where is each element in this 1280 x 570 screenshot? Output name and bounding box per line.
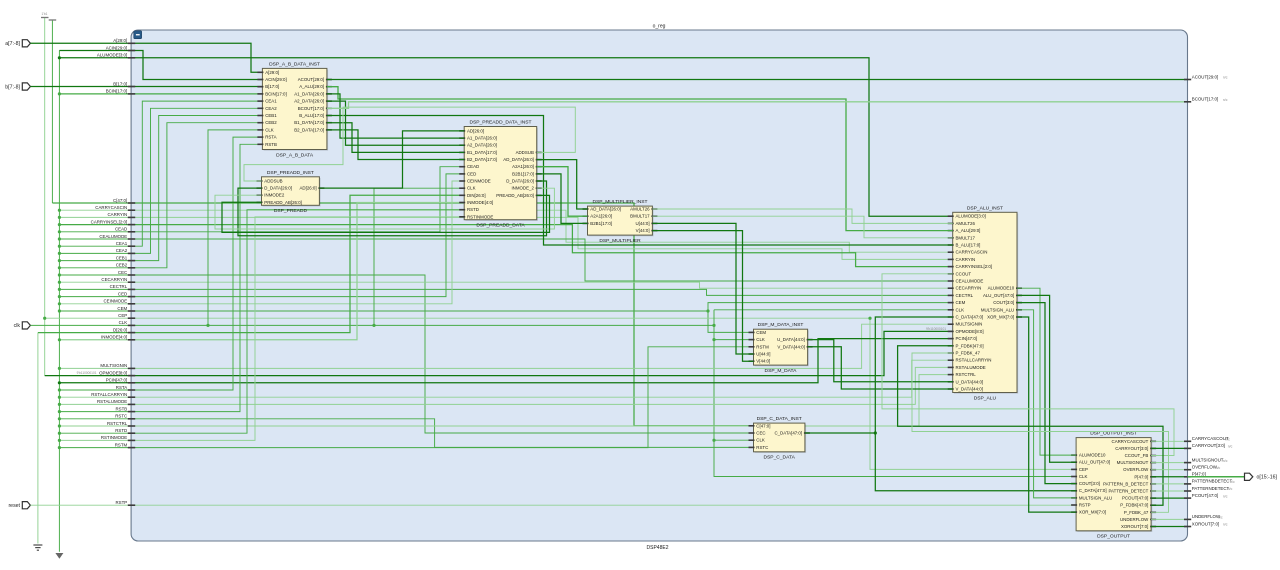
svg-text:BCIN[17:0]: BCIN[17:0] xyxy=(106,89,127,94)
svg-text:CEINMODE: CEINMODE xyxy=(467,179,491,184)
wire RSTA xyxy=(59,137,262,390)
svg-text:INMODE[4:0]: INMODE[4:0] xyxy=(101,335,127,340)
svg-text:B2_DATA[17:0]: B2_DATA[17:0] xyxy=(467,157,497,162)
svg-text:CECARRYIN: CECARRYIN xyxy=(956,286,982,291)
svg-text:A2A1[26:0]: A2A1[26:0] xyxy=(590,214,612,219)
svg-text:n/c: n/c xyxy=(1228,445,1233,449)
svg-text:CEC: CEC xyxy=(756,431,765,436)
ground rail GND (bus D) xyxy=(37,333,39,544)
wire CEP xyxy=(45,318,1076,469)
svg-text:CEB2: CEB2 xyxy=(265,120,277,125)
svg-text:C_DATA[47:0]: C_DATA[47:0] xyxy=(1079,488,1107,493)
node RSTCTRL-junc xyxy=(58,424,61,427)
svg-text:A_ALU[29:0]: A_ALU[29:0] xyxy=(956,228,981,233)
svg-text:AD_DATA[26:0]: AD_DATA[26:0] xyxy=(503,157,534,162)
node MULTSIGNIN-junc xyxy=(58,367,61,370)
svg-text:b[7:-8]: b[7:-8] xyxy=(5,84,20,90)
svg-text:PATTERNBDETECT: PATTERNBDETECT xyxy=(1192,479,1233,484)
svg-text:RSTINMODE: RSTINMODE xyxy=(101,435,127,440)
node CEC-junc xyxy=(58,273,61,276)
wire CEM branch to DSP_M_DATA xyxy=(708,311,754,332)
svg-text:MULTSIGN_ALU: MULTSIGN_ALU xyxy=(981,307,1014,312)
wire output PATTERNBDETECT xyxy=(1151,483,1187,485)
wire output CARRYOUT[3:0] xyxy=(1151,447,1187,449)
svg-text:DSP_OUTPUT: DSP_OUTPUT xyxy=(1097,534,1130,540)
wire RSTINMODE xyxy=(59,217,464,441)
svg-text:DSP_MULTIPLIER_INST: DSP_MULTIPLIER_INST xyxy=(592,199,647,205)
input port clk xyxy=(22,322,30,329)
svg-text:PCIN[47:0]: PCIN[47:0] xyxy=(106,378,127,383)
svg-text:CLK: CLK xyxy=(265,127,274,132)
svg-text:P_FDBK[47:0]: P_FDBK[47:0] xyxy=(956,343,984,348)
wire CEAD xyxy=(59,167,464,232)
svg-text:UNDERFLOW: UNDERFLOW xyxy=(1192,514,1221,519)
svg-text:RSTALUMODE: RSTALUMODE xyxy=(97,399,127,404)
node CECARRYIN-junc xyxy=(58,281,61,284)
node CEM-branch xyxy=(706,309,709,312)
svg-text:PATTERNDETECT: PATTERNDETECT xyxy=(1192,486,1230,491)
node CARRYCASCIN-junc xyxy=(58,209,61,212)
node CEP-corner xyxy=(868,317,871,320)
block DSP_A_B_DATA_INST (DSP_A_B_DATA) xyxy=(257,61,332,158)
wire RSTP xyxy=(30,504,1076,506)
svg-text:U[44:0]: U[44:0] xyxy=(635,221,649,226)
node RSTINMODE-junc xyxy=(58,439,61,442)
wire AD_DATA[26:0] xyxy=(537,160,588,209)
wire ADDSUB xyxy=(244,107,575,181)
wire output OVERFLOW xyxy=(1151,469,1187,471)
svg-text:CED: CED xyxy=(467,171,476,176)
svg-text:MULTSIGNIN: MULTSIGNIN xyxy=(956,322,983,327)
svg-text:PCOUT[47:0]: PCOUT[47:0] xyxy=(1122,496,1148,501)
svg-text:CEM: CEM xyxy=(956,300,966,305)
node RSTB-junc xyxy=(58,410,61,413)
svg-text:DSP_A_B_DATA_INST: DSP_A_B_DATA_INST xyxy=(269,61,320,67)
wire B1_DATA[17:0] xyxy=(327,123,464,153)
svg-text:A[29:0]: A[29:0] xyxy=(265,70,279,75)
block DSP_PREADD_INST (DSP_PREADD) xyxy=(257,170,325,214)
svg-text:RSTB: RSTB xyxy=(265,142,277,147)
svg-text:P[47:0]: P[47:0] xyxy=(1192,472,1206,477)
svg-text:CEA2: CEA2 xyxy=(265,106,277,111)
svg-text:RSTALLCARRYIN: RSTALLCARRYIN xyxy=(91,392,127,397)
wire COUT[3:0] xyxy=(1017,303,1076,484)
power rail const (CEP/OPMODE) xyxy=(44,18,46,376)
svg-text:CARRYOUT[3:0]: CARRYOUT[3:0] xyxy=(1115,446,1148,451)
node RSTALLCARRYIN-junc xyxy=(58,396,61,399)
svg-text:OVERFLOW: OVERFLOW xyxy=(1192,465,1218,470)
svg-text:XOROUT[7:0]: XOROUT[7:0] xyxy=(1121,524,1148,529)
svg-text:CEA2: CEA2 xyxy=(116,248,128,253)
node BCIN[17:0]-junc xyxy=(58,92,61,95)
wire P_FDBK_47 loop xyxy=(912,353,1169,512)
node CECTRL-junc xyxy=(58,288,61,291)
svg-text:RSTA: RSTA xyxy=(265,135,276,140)
block DSP_OUTPUT_INST (DSP_OUTPUT) xyxy=(1071,431,1156,540)
wire CEALUMODE xyxy=(59,239,952,281)
svg-text:CEB1: CEB1 xyxy=(116,255,128,260)
ground symbol (arrow) xyxy=(55,553,63,559)
svg-text:DSP_A_B_DATA: DSP_A_B_DATA xyxy=(276,152,314,158)
svg-text:RSTP: RSTP xyxy=(1079,503,1091,508)
svg-text:A2_DATA[26:0]: A2_DATA[26:0] xyxy=(467,143,497,148)
svg-text:A1_DATA[26:0]: A1_DATA[26:0] xyxy=(467,136,497,141)
wire output PATTERNDETECT xyxy=(1151,490,1187,492)
svg-text:OPMODE[8:0]: OPMODE[8:0] xyxy=(956,329,984,334)
wire CEINMODE xyxy=(59,181,464,304)
wire B[17:0] xyxy=(30,86,262,88)
svg-text:INMODE_2: INMODE_2 xyxy=(511,186,534,191)
wire CLK trunk down xyxy=(714,310,1076,477)
input port reset xyxy=(22,502,30,509)
svg-text:INMODE2: INMODE2 xyxy=(264,193,285,198)
svg-text:B1_DATA[17:0]: B1_DATA[17:0] xyxy=(467,150,497,155)
svg-text:MULTSIGNIN: MULTSIGNIN xyxy=(100,363,127,368)
block DSP_MULTIPLIER_INST (DSP_MULTIPLIER) xyxy=(583,199,658,244)
wire B_ALU[17:0] xyxy=(327,116,953,246)
svg-text:RSTM: RSTM xyxy=(115,442,128,447)
node RSTC-junc xyxy=(58,417,61,420)
svg-text:CLK: CLK xyxy=(119,320,128,325)
wire CLK branch to DSP_M_DATA xyxy=(714,339,754,341)
svg-text:CARRYINSEL[2:0]: CARRYINSEL[2:0] xyxy=(956,264,993,269)
svg-text:C_DATA[47:0]: C_DATA[47:0] xyxy=(956,315,984,320)
node CARRYINSEL[2:0]-junc xyxy=(58,223,61,226)
svg-text:DSP_PREADD_DATA_INST: DSP_PREADD_DATA_INST xyxy=(469,120,531,126)
ground rail GND (const0) xyxy=(58,51,60,552)
svg-text:CCOUT: CCOUT xyxy=(956,271,972,276)
svg-text:CEA1: CEA1 xyxy=(116,241,128,246)
svg-text:MULTSIGNOUT: MULTSIGNOUT xyxy=(1117,460,1149,465)
node CLK-j1 xyxy=(206,324,209,327)
svg-text:n/c: n/c xyxy=(1218,516,1223,520)
wire INMODE[4:0] xyxy=(59,203,464,340)
node RSTALUMODE-junc xyxy=(58,403,61,406)
module boundary o_reg / DSP48E2 xyxy=(131,30,1187,541)
node CEB1-junc xyxy=(58,259,61,262)
svg-text:CARRYCASCIN: CARRYCASCIN xyxy=(95,205,127,210)
svg-text:AMULT26: AMULT26 xyxy=(630,207,650,212)
svg-text:ACIN[29:0]: ACIN[29:0] xyxy=(265,77,286,82)
svg-text:OPMODE[8:0]: OPMODE[8:0] xyxy=(99,370,127,375)
svg-text:DIN[26:0]: DIN[26:0] xyxy=(467,193,486,198)
node CLK-j5 xyxy=(712,439,715,442)
wire XOR_MX[7:0] xyxy=(1017,317,1076,512)
svg-text:CECTRL: CECTRL xyxy=(110,284,128,289)
wire RSTCTRL xyxy=(59,375,952,426)
wire BCOUT[17:0] xyxy=(327,102,1188,109)
svg-text:RSTD: RSTD xyxy=(115,428,127,433)
svg-text:DSP_PREADD_INST: DSP_PREADD_INST xyxy=(267,170,314,176)
power rail const (C) xyxy=(51,20,53,203)
svg-text:DSP_C_DATA: DSP_C_DATA xyxy=(764,455,796,461)
svg-text:C[47:0]: C[47:0] xyxy=(756,423,770,428)
wire CEM xyxy=(59,303,952,311)
svg-text:XOROUT[7:0]: XOROUT[7:0] xyxy=(1192,521,1219,526)
svg-text:DSP48E2: DSP48E2 xyxy=(647,545,669,551)
svg-text:reset: reset xyxy=(8,503,20,509)
svg-text:V[44:0]: V[44:0] xyxy=(756,359,770,364)
svg-text:PCOUT[47:0]: PCOUT[47:0] xyxy=(1192,493,1218,498)
wire CEA2 xyxy=(59,108,262,253)
svg-text:CEA1: CEA1 xyxy=(265,99,277,104)
svg-text:CARRYIN: CARRYIN xyxy=(956,257,976,262)
svg-text:9'b110000101: 9'b110000101 xyxy=(77,371,97,375)
svg-text:P_FDBK_47: P_FDBK_47 xyxy=(1124,510,1149,515)
svg-text:D_DATA[26:0]: D_DATA[26:0] xyxy=(506,179,534,184)
svg-text:A1_DATA[26:0]: A1_DATA[26:0] xyxy=(294,91,324,96)
svg-text:V[44:0]: V[44:0] xyxy=(636,228,650,233)
wire PREADD_AB[26:0] xyxy=(222,195,550,232)
node ALUMODE[3:0]-junc xyxy=(58,56,61,59)
svg-text:BMULT17: BMULT17 xyxy=(630,214,650,219)
wire ALU_OUT[47:0] xyxy=(1017,295,1076,462)
wire CEA1 xyxy=(59,101,262,246)
svg-text:ALUMODE[3:0]: ALUMODE[3:0] xyxy=(97,53,127,58)
wire output CARRYCASCOUT xyxy=(1151,440,1187,442)
svg-text:n/c: n/c xyxy=(1223,459,1228,463)
wire P_FDBK[47:0] loop xyxy=(898,346,1163,505)
svg-text:RSTINMODE: RSTINMODE xyxy=(467,214,493,219)
block DSP_PREADD_DATA_INST (DSP_PREADD_DATA) xyxy=(459,120,542,229)
svg-text:DSP_ALU: DSP_ALU xyxy=(974,395,997,401)
node CEINMODE-junc xyxy=(58,302,61,305)
svg-text:ALU_OUT[47:0]: ALU_OUT[47:0] xyxy=(1079,460,1110,465)
wire OPMODE[8:0] xyxy=(45,331,953,375)
wire RSTM xyxy=(59,347,753,448)
svg-text:A2_DATA[26:0]: A2_DATA[26:0] xyxy=(294,99,324,104)
node CEALUMODE-junc xyxy=(58,237,61,240)
wire CEB2 xyxy=(59,123,262,268)
block DSP_M_DATA_INST (DSP_M_DATA) xyxy=(749,322,813,374)
svg-text:n/c: n/c xyxy=(1223,494,1228,498)
svg-text:C_DATA[47:0]: C_DATA[47:0] xyxy=(774,431,802,436)
svg-text:XOR_MX[7:0]: XOR_MX[7:0] xyxy=(1079,510,1106,515)
node CEA2-junc xyxy=(58,252,61,255)
node CED-junc xyxy=(58,295,61,298)
svg-text:B2B1[17:0]: B2B1[17:0] xyxy=(590,221,612,226)
wire output PCOUT[47:0] xyxy=(1151,497,1187,499)
svg-text:n/c: n/c xyxy=(1223,523,1228,527)
svg-text:A_ALU[29:0]: A_ALU[29:0] xyxy=(299,84,324,89)
wire A2_DATA[26:0] xyxy=(327,101,464,145)
svg-text:CEALUMODE: CEALUMODE xyxy=(956,279,984,284)
svg-text:ACIN[29:0]: ACIN[29:0] xyxy=(106,45,127,50)
edge output ACOUT xyxy=(1184,79,1191,81)
wire RSTB xyxy=(59,144,262,411)
wire MULTSIGN_ALU xyxy=(1017,310,1076,498)
svg-text:P_FDBK[47:0]: P_FDBK[47:0] xyxy=(1120,503,1148,508)
wire V_DATA[44:0] xyxy=(808,347,953,389)
svg-text:V_DATA[44:0]: V_DATA[44:0] xyxy=(777,344,804,349)
svg-text:BCOUT[17:0]: BCOUT[17:0] xyxy=(298,106,324,111)
svg-text:MULTSIGNOUT: MULTSIGNOUT xyxy=(1192,457,1224,462)
wire CARRYINSEL[2:0] xyxy=(59,225,952,267)
wire AD[26:0] xyxy=(319,131,464,188)
svg-text:CARRYCASCIN: CARRYCASCIN xyxy=(956,250,988,255)
wire ACOUT[29:0] xyxy=(327,79,1188,81)
svg-text:RSTM: RSTM xyxy=(756,344,769,349)
svg-text:B2B1[17:0]: B2B1[17:0] xyxy=(512,171,534,176)
svg-text:AD[26:0]: AD[26:0] xyxy=(467,128,484,133)
svg-text:CLK: CLK xyxy=(467,186,476,191)
node CEM-junc xyxy=(58,309,61,312)
wire CEC xyxy=(59,275,753,433)
svg-text:CEAD: CEAD xyxy=(467,164,479,169)
wire D_DATA[26:0] xyxy=(238,181,547,236)
svg-text:PATTERN_B_DETECT: PATTERN_B_DETECT xyxy=(1103,481,1149,486)
svg-text:ALUMODE[3:0]: ALUMODE[3:0] xyxy=(956,214,986,219)
svg-text:C[47:0]: C[47:0] xyxy=(113,198,127,203)
svg-text:P[47:0]: P[47:0] xyxy=(1134,474,1148,479)
node CLK-j2 xyxy=(372,324,375,327)
svg-text:COUT[3:0]: COUT[3:0] xyxy=(993,300,1014,305)
edge output BCOUT xyxy=(1184,101,1191,103)
wire BMULT17 xyxy=(652,216,952,238)
svg-text:o[15:-16]: o[15:-16] xyxy=(1257,475,1278,481)
svg-text:n/c: n/c xyxy=(1228,487,1233,491)
svg-text:DSP_MULTIPLIER: DSP_MULTIPLIER xyxy=(599,238,641,244)
node CEAD-junc xyxy=(58,230,61,233)
svg-text:B[17:0]: B[17:0] xyxy=(113,81,127,86)
svg-text:n/c: n/c xyxy=(1223,76,1228,80)
svg-text:B_ALU[17:0]: B_ALU[17:0] xyxy=(956,243,981,248)
svg-text:CARRYCASCOUT: CARRYCASCOUT xyxy=(1112,439,1149,444)
node CEA1-junc xyxy=(58,245,61,248)
svg-text:RSTC: RSTC xyxy=(115,414,127,419)
wire B2B1[17:0] xyxy=(537,174,588,224)
wire D[26:0] xyxy=(38,195,464,332)
svg-text:BCOUT[17:0]: BCOUT[17:0] xyxy=(1192,97,1218,102)
wire ALUMODE[3:0] xyxy=(59,58,952,216)
wire CCOUT_FB loop xyxy=(882,274,1174,456)
svg-text:AD[26:0]: AD[26:0] xyxy=(300,186,317,191)
svg-text:UNDERFLOW: UNDERFLOW xyxy=(1120,517,1149,522)
wire BCIN[17:0] xyxy=(59,93,262,95)
wire RSTC xyxy=(59,419,753,448)
svg-text:XOR_MX[7:0]: XOR_MX[7:0] xyxy=(987,315,1014,320)
wire RSTALLCARRYIN xyxy=(59,360,952,397)
wire CLK branch to DSP_C_DATA xyxy=(714,439,754,441)
block DSP_C_DATA_INST (DSP_C_DATA) xyxy=(749,416,810,461)
svg-text:DSP_M_DATA_INST: DSP_M_DATA_INST xyxy=(758,322,804,328)
svg-text:DSP_PREADD: DSP_PREADD xyxy=(274,208,308,214)
svg-text:B2_DATA[17:0]: B2_DATA[17:0] xyxy=(294,127,324,132)
svg-text:CARRYINSEL[2:0]: CARRYINSEL[2:0] xyxy=(91,219,128,224)
svg-text:RSTD: RSTD xyxy=(467,207,479,212)
svg-text:ADDSUB: ADDSUB xyxy=(516,150,534,155)
svg-text:RSTA: RSTA xyxy=(116,385,127,390)
wire P to output port o xyxy=(1188,476,1245,478)
svg-text:PATTERN_DETECT: PATTERN_DETECT xyxy=(1108,489,1148,494)
svg-text:ADDSUB: ADDSUB xyxy=(264,179,282,184)
svg-text:RSTCTRL: RSTCTRL xyxy=(107,421,128,426)
svg-text:CEP: CEP xyxy=(1079,467,1088,472)
wire C_DATA[47:0] to ALU xyxy=(805,317,953,433)
svg-text:RSTB: RSTB xyxy=(115,406,127,411)
svg-text:CEAD: CEAD xyxy=(115,227,127,232)
svg-text:CARRYCASCOUT: CARRYCASCOUT xyxy=(1192,436,1229,441)
wire CECARRYIN xyxy=(59,282,952,288)
input port a xyxy=(22,40,30,47)
svg-text:n/c: n/c xyxy=(1223,98,1228,102)
svg-text:RSTP: RSTP xyxy=(115,500,127,505)
svg-text:COUT[3:0]: COUT[3:0] xyxy=(1079,481,1100,486)
svg-text:CLK: CLK xyxy=(1079,474,1088,479)
wire RSTALUMODE xyxy=(59,367,952,404)
svg-text:ACOUT[29:0]: ACOUT[29:0] xyxy=(1192,74,1218,79)
node PCIN[47:0]-junc xyxy=(58,381,61,384)
wire CECTRL xyxy=(59,289,952,295)
wire CLK xyxy=(30,324,714,326)
node CEB2-junc xyxy=(58,266,61,269)
svg-text:CEM: CEM xyxy=(117,306,127,311)
node CEP-junc xyxy=(43,317,46,320)
svg-text:INMODE[4:0]: INMODE[4:0] xyxy=(467,200,493,205)
svg-text:1'b1: 1'b1 xyxy=(42,12,48,16)
svg-text:RSTCTRL: RSTCTRL xyxy=(956,372,977,377)
wire MULTSIGNIN xyxy=(59,324,952,368)
svg-text:CLK: CLK xyxy=(756,438,765,443)
svg-text:CLK: CLK xyxy=(956,307,965,312)
node RSTM-junc xyxy=(58,446,61,449)
svg-text:DSP_M_DATA: DSP_M_DATA xyxy=(765,368,798,374)
svg-text:DSP_C_DATA_INST: DSP_C_DATA_INST xyxy=(757,416,802,422)
svg-text:RSTALUMODE: RSTALUMODE xyxy=(956,365,986,370)
node CLK-j3 xyxy=(712,324,715,327)
svg-text:CARRYOUT[3:0]: CARRYOUT[3:0] xyxy=(1192,443,1225,448)
svg-text:DSP_PREADD_DATA: DSP_PREADD_DATA xyxy=(476,223,525,229)
block DSP_ALU_INST (DSP_ALU) xyxy=(948,205,1022,401)
wire RSTD xyxy=(59,210,464,434)
svg-text:B[17:0]: B[17:0] xyxy=(265,84,279,89)
svg-text:CEC: CEC xyxy=(118,270,127,275)
wire AMULT26 xyxy=(652,209,952,223)
collapse icon xyxy=(134,31,142,39)
svg-text:CEB2: CEB2 xyxy=(116,263,128,268)
svg-text:ALU_OUT[47:0]: ALU_OUT[47:0] xyxy=(983,293,1014,298)
svg-text:clk: clk xyxy=(14,323,21,329)
wire output MULTSIGNOUT xyxy=(1151,462,1187,464)
svg-text:ALUMODE10: ALUMODE10 xyxy=(988,286,1015,291)
svg-text:9'b110000101: 9'b110000101 xyxy=(926,327,946,331)
wire CED xyxy=(59,174,464,297)
svg-text:DSP_ALU_INST: DSP_ALU_INST xyxy=(967,205,1003,211)
wire C[47:0] xyxy=(52,203,753,426)
svg-text:CECTRL: CECTRL xyxy=(956,293,974,298)
wire A_ALU[29:0] xyxy=(327,87,953,231)
svg-text:CARRYIN: CARRYIN xyxy=(108,212,128,217)
ground symbol (bars) xyxy=(33,544,42,546)
wire U_DATA[44:0] xyxy=(808,340,953,382)
svg-text:MULTSIGN_ALU: MULTSIGN_ALU xyxy=(1079,495,1112,500)
node CARRYIN-junc xyxy=(58,216,61,219)
svg-text:BMULT17: BMULT17 xyxy=(956,235,976,240)
wire CLK branch to DSP_PREADD_DATA xyxy=(374,188,464,325)
wire output P[47:0] xyxy=(1151,476,1187,478)
wire CEB1 xyxy=(59,116,262,261)
svg-text:CEB1: CEB1 xyxy=(265,113,277,118)
svg-text:a[7:-8]: a[7:-8] xyxy=(5,41,20,47)
wire A1_DATA[26:0] xyxy=(327,94,464,138)
svg-text:CEP: CEP xyxy=(118,313,127,318)
wire PCIN[47:0] xyxy=(59,339,952,383)
wire A2A1[26:0] xyxy=(537,167,588,217)
svg-text:U_DATA[44:0]: U_DATA[44:0] xyxy=(777,337,805,342)
svg-text:PREADD_AB[26:0]: PREADD_AB[26:0] xyxy=(264,200,302,205)
wire ACIN[29:0] xyxy=(59,51,262,80)
svg-text:RSTALLCARRYIN: RSTALLCARRYIN xyxy=(956,358,992,363)
